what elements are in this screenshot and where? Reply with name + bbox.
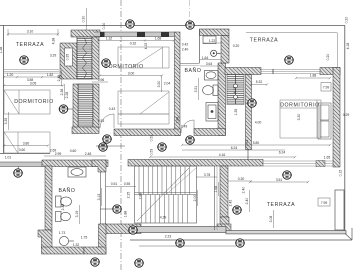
upper bath toilet [203, 85, 218, 96]
grid bubble 16 [128, 226, 138, 234]
grid bubble 18 [235, 239, 245, 247]
stair wall foot block [217, 224, 231, 232]
svg-text:1.68: 1.68 [155, 36, 162, 40]
bath right wall double line [100, 172, 102, 224]
closet column bottom hatched bar [72, 127, 99, 134]
staircase second diagonal [166, 168, 196, 195]
grid bubble 8 [247, 99, 257, 107]
grid bubble 17 [175, 239, 185, 247]
svg-text:TERRAZA: TERRAZA [250, 38, 278, 44]
bed2 center dormitorio [118, 91, 169, 124]
svg-text:3.50: 3.50 [157, 81, 161, 88]
svg-text:3.64: 3.64 [206, 62, 213, 66]
duct shaft next to upper bath [227, 75, 244, 105]
dimension 2.99 0.60 2.48 bath top [44, 155, 106, 157]
lower bath bidet [56, 212, 71, 222]
dimension 0.96 [92, 81, 108, 83]
bottom wall gray band under stairs [130, 227, 226, 233]
svg-text:2.49: 2.49 [181, 125, 188, 129]
dimension 5.80 right center [181, 144, 331, 146]
mid wall window lines right [263, 161, 333, 166]
closet column right hatched wall upper [92, 37, 99, 79]
svg-text:1.20: 1.20 [7, 73, 14, 77]
svg-text:3.08: 3.08 [269, 216, 273, 223]
terraza bottom corner vertical [351, 228, 353, 240]
svg-text:5.32: 5.32 [256, 80, 263, 84]
wall left step block beside duct (hatched) [60, 43, 77, 79]
upper bath sink [205, 71, 219, 81]
wall pier [100, 32, 105, 37]
mid wall corner block at bath top right [92, 160, 106, 172]
outer wall right [344, 26, 346, 234]
svg-text:4.38: 4.38 [52, 38, 56, 45]
right unit closet right wall (hatched) [221, 36, 229, 64]
svg-text:1.68: 1.68 [214, 186, 218, 193]
duct zigzag [83, 38, 87, 78]
wardrobe/duct ladder upper [77, 37, 92, 79]
svg-text:6.24: 6.24 [231, 146, 238, 150]
bubble 9 leader [18, 167, 20, 170]
dimension 1.88 right dorm [295, 77, 331, 79]
wall between center dormitorio and bath (vertical hatched) [175, 32, 181, 136]
svg-text:1.73: 1.73 [59, 231, 66, 235]
wardrobe right dormitorio [318, 103, 331, 139]
svg-text:4.29: 4.29 [160, 215, 167, 219]
svg-text:1.88: 1.88 [310, 73, 317, 77]
svg-text:3.13: 3.13 [97, 194, 101, 201]
svg-text:0.51: 0.51 [111, 182, 118, 186]
axis centerline A [120, 0, 122, 270]
svg-text:0.20: 0.20 [233, 44, 240, 48]
wardrobe ladder lower [78, 84, 93, 128]
lower bath sink [68, 167, 86, 177]
svg-text:0.60: 0.60 [70, 149, 77, 153]
svg-text:2.40: 2.40 [245, 198, 249, 205]
left wing lower band [0, 162, 42, 167]
dimension 0.30 vertical top [86, 8, 88, 30]
svg-text:1.32: 1.32 [106, 36, 113, 40]
mid wall hatched center (stairs to terraza) [128, 160, 263, 167]
svg-text:0.20: 0.20 [326, 54, 330, 61]
svg-text:2.25: 2.25 [127, 192, 131, 199]
right dorm wall thin continuation [247, 150, 249, 161]
svg-text:0.30: 0.30 [82, 16, 86, 23]
dimension 4.16 [149, 156, 296, 158]
svg-text:2.40: 2.40 [242, 187, 246, 194]
svg-text:2.88: 2.88 [176, 117, 180, 124]
dimension 1.22 closet right [203, 42, 222, 44]
svg-text:1.35: 1.35 [234, 109, 238, 116]
dimension 3.51 terraza bottom [249, 181, 309, 183]
svg-text:3.60: 3.60 [19, 148, 26, 152]
svg-text:2.69: 2.69 [50, 149, 57, 153]
svg-text:3.30: 3.30 [297, 114, 301, 121]
svg-text:2.04: 2.04 [164, 81, 171, 85]
staircase treads lower flight [141, 195, 187, 224]
closet boiler circle [211, 50, 221, 56]
dimension 1.64 closet right [200, 59, 221, 61]
svg-text:2.00: 2.00 [193, 195, 197, 202]
upper bath bottom wall [194, 129, 226, 136]
staircase treads upper flight [139, 166, 190, 195]
right unit closet top bar (hatched) [200, 29, 230, 36]
window terraza TR sill lines [261, 70, 320, 74]
center dorm door arc [100, 114, 114, 128]
wall pier [137, 32, 145, 37]
dimension 0.51 0.55 hall [106, 186, 136, 188]
bed1 center dormitorio [118, 47, 169, 68]
right exterior wall hatched band top [320, 68, 340, 75]
vertical dimension 2.40 terraza [249, 190, 251, 212]
terraza TR bottom wall hatch left [225, 68, 261, 75]
staircase right railing [214, 166, 216, 230]
grid bubble 4 [101, 59, 111, 67]
dimension 6.24 [182, 149, 285, 151]
svg-text:7.99: 7.99 [321, 201, 328, 205]
svg-text:0.53: 0.53 [150, 149, 154, 156]
right exterior wall hatched vertical [333, 68, 340, 168]
duct label box 0.35 [65, 48, 73, 66]
grid bubble 10 [102, 135, 112, 143]
svg-text:1.38: 1.38 [0, 47, 3, 54]
grid bubble 9 [13, 169, 23, 177]
vertical dimension 3.51 upper bath [198, 78, 200, 100]
right unit closet left wall line [199, 29, 201, 63]
svg-text:0.20: 0.20 [345, 17, 349, 24]
svg-text:3.51: 3.51 [276, 178, 283, 182]
dimension 0.30 stairs wall [228, 180, 252, 182]
dimension 3.00 center dorm [99, 74, 163, 76]
stair wall lower segment [220, 217, 229, 227]
svg-text:2.38: 2.38 [60, 89, 64, 96]
closet column left hatched wall lower [73, 84, 78, 128]
vertical dimension 3.19 bath [79, 205, 81, 224]
svg-text:3.78: 3.78 [204, 173, 211, 177]
vertical dimension 3.50 center dorm [161, 76, 163, 92]
svg-text:DORMITORIO: DORMITORIO [14, 99, 54, 105]
svg-text:2.42: 2.42 [229, 200, 233, 207]
dimension 3.78 stairs [196, 176, 217, 178]
svg-text:2.40: 2.40 [182, 48, 189, 52]
bottom dim line between bubbles [139, 245, 236, 247]
grid bubble 12 [157, 143, 167, 151]
svg-text:3.00: 3.00 [128, 71, 135, 75]
svg-text:1.65: 1.65 [324, 155, 331, 159]
svg-text:2.48: 2.48 [61, 204, 65, 211]
outer wall top inner line right [246, 32, 337, 34]
svg-text:0.32: 0.32 [130, 41, 137, 45]
outer wall left [3, 26, 5, 154]
svg-text:1.64: 1.64 [202, 56, 209, 60]
svg-text:2.88: 2.88 [139, 193, 143, 200]
closet column right hatched wall lower [93, 84, 99, 128]
dimension row left dorm top 1.20 3.58 1.82 [3, 76, 60, 78]
svg-text:1.88: 1.88 [124, 211, 128, 218]
lower bath washbasin round [59, 236, 74, 245]
svg-text:0.30: 0.30 [102, 23, 106, 30]
corridor top wall segment [114, 129, 181, 136]
vertical dimension 3.35 left [8, 112, 10, 130]
grid bubble 13 [185, 136, 195, 144]
svg-text:BAÑO: BAÑO [58, 187, 75, 194]
svg-text:3.10: 3.10 [27, 30, 34, 34]
vertical dimension 2.38 [64, 84, 66, 100]
bed left dormitorio [4, 90, 50, 114]
svg-text:4.00: 4.00 [255, 121, 262, 125]
svg-text:0.53: 0.53 [98, 119, 105, 123]
closet cabinet [203, 36, 216, 44]
staircase landing lines [135, 194, 197, 196]
mid wall hatched above lower bath [42, 160, 108, 167]
dimension 3.64 upper bath [200, 65, 222, 67]
svg-text:2.23: 2.23 [165, 234, 172, 238]
lower bath left wall step [38, 230, 52, 248]
bubble pair leader line [96, 145, 125, 147]
grid bubble 7 [59, 105, 69, 113]
outer wall right inner [336, 33, 338, 70]
lower bath toilet [56, 196, 72, 207]
stair wall T vertical (hatched) [220, 166, 228, 217]
terraza door pillar right [335, 190, 344, 230]
grid bubble 11 [98, 143, 108, 151]
wall top of center dormitorio (grey band) [95, 32, 175, 37]
boxed label 7.99 terraza [318, 198, 330, 206]
svg-text:3.80: 3.80 [23, 141, 30, 145]
svg-text:5.80: 5.80 [253, 141, 260, 145]
grid bubble hall [112, 205, 122, 213]
grid bubble 1 [125, 20, 135, 28]
lower bath right wall lower [84, 247, 106, 254]
staircase outline [135, 166, 197, 223]
window terraza TL sill lines [3, 70, 59, 74]
svg-text:3.29: 3.29 [50, 54, 57, 58]
svg-text:3.35: 3.35 [4, 118, 8, 125]
svg-text:2.48: 2.48 [85, 152, 92, 156]
axis centerline B [189, 0, 191, 25]
grid bubble 2 [185, 21, 195, 29]
vertical dimension 2.48 [61, 70, 63, 86]
svg-text:0.53: 0.53 [150, 135, 154, 142]
lower bath left wall (hatched) [45, 166, 52, 230]
terraza bottom outer line [130, 239, 352, 241]
svg-text:1.22: 1.22 [209, 39, 216, 43]
svg-text:2.28: 2.28 [65, 92, 69, 99]
grid bubble 20 [134, 259, 144, 267]
svg-text:4.16: 4.16 [219, 153, 226, 157]
terraza corner diagonal [345, 234, 352, 241]
upper bath door arc [181, 120, 194, 133]
wall left of right dormitorio (vertical hatched) [246, 75, 252, 150]
mid wall pier right [316, 161, 325, 167]
svg-text:0.29: 0.29 [343, 113, 350, 117]
svg-text:0.96: 0.96 [98, 78, 105, 82]
svg-text:DORMITORIO: DORMITORIO [280, 103, 320, 109]
grid bubble 6 [284, 56, 294, 64]
svg-text:0.15: 0.15 [339, 170, 343, 177]
vertical dimension 2.00 stairs [197, 190, 199, 206]
svg-text:6.24: 6.24 [279, 150, 286, 154]
grid bubble 19 [90, 258, 100, 266]
boxed label 7.99 right dormitorio [321, 83, 331, 92]
wall pier [161, 32, 169, 37]
grid bubble 3 [19, 56, 29, 64]
wall right of upper bath (vertical hatched) [218, 63, 226, 136]
bed2 left dormitorio [4, 132, 50, 153]
bottom center wall vertical (hatched) [99, 224, 107, 254]
outer wall top [0, 25, 345, 27]
wall top bar of closet column (hatched) [71, 30, 100, 37]
svg-text:1.01: 1.01 [5, 155, 12, 159]
vertical dimension 1.68 stairs [218, 182, 220, 196]
svg-text:1.32: 1.32 [73, 243, 80, 247]
left unit bottom wall [0, 153, 50, 155]
svg-text:0.55: 0.55 [124, 182, 131, 186]
dimension row center top 1.32 / 1.68 [97, 39, 175, 41]
upper bath shower [206, 103, 218, 122]
vertical dimension 3.13 bath [101, 188, 103, 206]
svg-text:0.30: 0.30 [238, 177, 245, 181]
bed right dormitorio [280, 100, 321, 138]
svg-text:4.18: 4.18 [346, 43, 350, 50]
staircase cut diagonal [137, 168, 189, 221]
svg-text:TERRAZA: TERRAZA [16, 42, 44, 48]
svg-text:0.43: 0.43 [109, 107, 116, 111]
svg-text:1.82: 1.82 [47, 73, 54, 77]
svg-text:4.15: 4.15 [144, 43, 148, 50]
svg-text:3.05: 3.05 [30, 81, 37, 85]
vertical dimension 3.08 terraza [273, 210, 275, 228]
svg-text:0.53: 0.53 [245, 140, 249, 147]
svg-text:0.35: 0.35 [66, 54, 70, 61]
svg-text:3.19: 3.19 [75, 211, 79, 218]
dimension 5.32 right dorm [250, 83, 268, 85]
dimension 3.10 terraza TL [7, 29, 59, 36]
grid bubble 15 [232, 206, 242, 214]
grid bubble 14 [282, 171, 292, 179]
svg-text:TERRAZA: TERRAZA [267, 202, 295, 208]
svg-text:2.99: 2.99 [55, 152, 62, 156]
window middle post [272, 69, 274, 74]
svg-text:3.51: 3.51 [194, 86, 198, 93]
lower bath bottom wall [42, 247, 85, 254]
upper bath top shelf lines [180, 63, 200, 65]
svg-text:BAÑO: BAÑO [184, 67, 201, 74]
svg-text:1.75: 1.75 [81, 235, 88, 239]
svg-text:2.48: 2.48 [57, 75, 61, 82]
svg-text:0.42: 0.42 [182, 43, 189, 47]
bottom center wall L horizontal (hatched) [101, 224, 141, 234]
terraza bottom parapet band [226, 231, 346, 234]
dimension 3.05 left dorm [3, 84, 64, 86]
svg-text:4.18: 4.18 [233, 87, 237, 94]
dimension 3.80 / 3.60 left bottom [3, 144, 49, 146]
svg-text:7.99: 7.99 [323, 86, 330, 90]
